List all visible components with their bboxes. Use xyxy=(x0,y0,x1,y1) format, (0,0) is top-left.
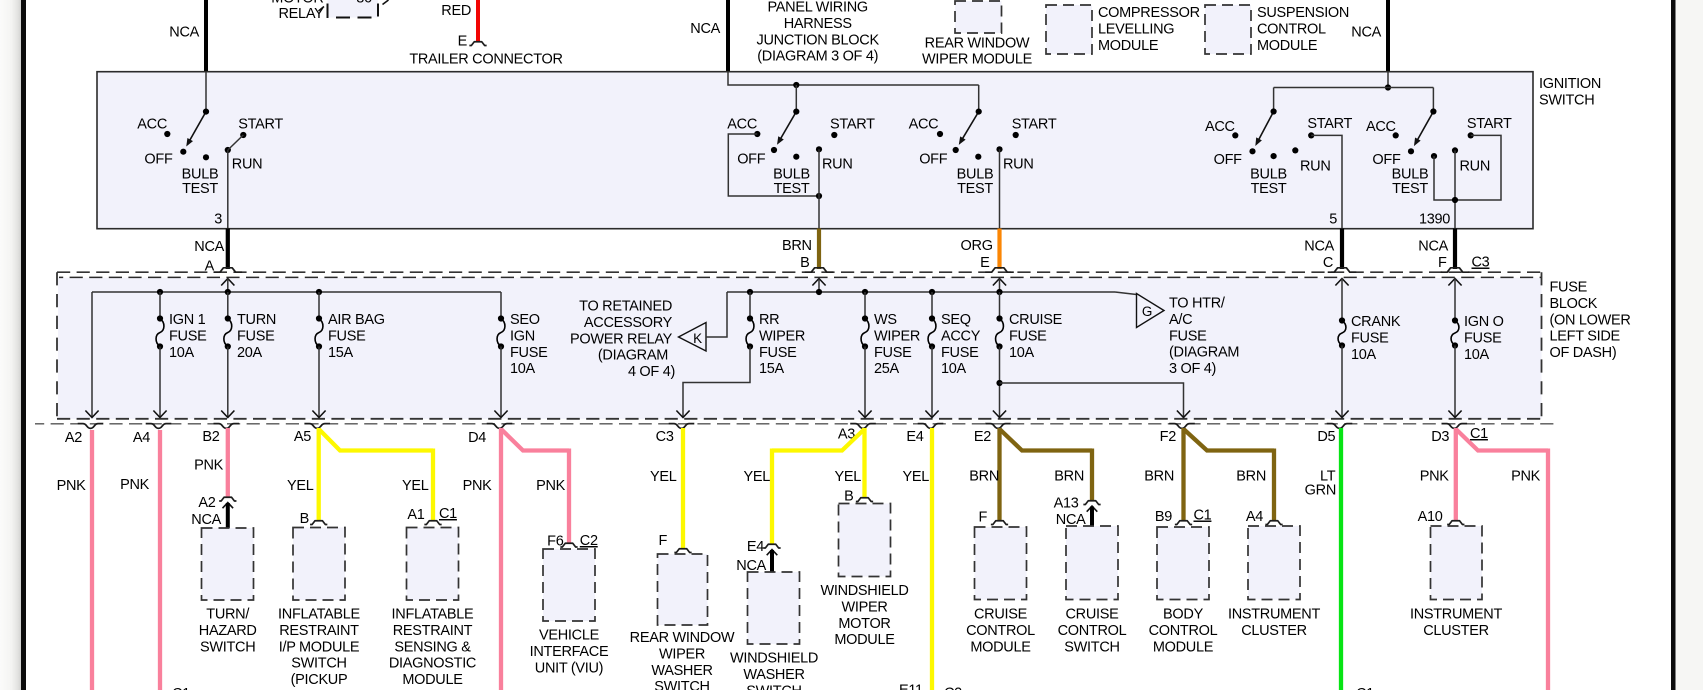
svg-text:FUSE: FUSE xyxy=(1550,280,1588,296)
svg-text:C1: C1 xyxy=(1194,508,1212,524)
svg-text:NCA: NCA xyxy=(690,21,720,37)
svg-text:ACC: ACC xyxy=(1366,119,1396,135)
fuse CRUISE FUSE 10A (feeds exits E2 and F2) xyxy=(993,292,1190,418)
label FUSE BLOCK (ON LOWER LEFT SIDE OF DASH) xyxy=(1550,280,1631,362)
contact OFF switch3 xyxy=(919,147,959,167)
component WINDSHIELD WASHER SWITCH (dashed box) xyxy=(730,572,818,690)
svg-text:A/C: A/C xyxy=(1169,312,1192,328)
connector B9 C1 of body control module xyxy=(1155,508,1212,526)
svg-text:CRUISE: CRUISE xyxy=(1009,312,1063,328)
svg-text:REAR WINDOW: REAR WINDOW xyxy=(630,630,735,646)
module SUSPENSION CONTROL MODULE (dashed box) xyxy=(1205,5,1349,54)
svg-text:START: START xyxy=(830,116,875,132)
svg-text:RUN: RUN xyxy=(822,156,853,172)
svg-text:RUN: RUN xyxy=(1460,159,1491,175)
svg-text:PNK: PNK xyxy=(1511,469,1541,485)
fuse CRANK FUSE 10A xyxy=(1335,314,1400,418)
svg-text:COMPRESSOR: COMPRESSOR xyxy=(1098,5,1200,21)
fuse block exit D4 xyxy=(468,424,512,446)
page left black border xyxy=(21,0,26,690)
svg-text:A5: A5 xyxy=(294,429,311,445)
svg-text:INFLATABLE: INFLATABLE xyxy=(392,607,475,623)
svg-text:RUN: RUN xyxy=(1003,156,1034,172)
svg-text:10A: 10A xyxy=(1464,347,1490,363)
svg-text:TEST: TEST xyxy=(1251,181,1287,197)
svg-text:WASHER: WASHER xyxy=(651,663,712,679)
wire PNK from A4 xyxy=(120,430,160,690)
svg-text:SWITCH: SWITCH xyxy=(746,683,801,690)
wire NCA to ignition switch pin (left feed) xyxy=(169,0,206,72)
svg-text:START: START xyxy=(238,116,283,132)
svg-text:C2: C2 xyxy=(580,533,598,549)
inline connector E4 NCA xyxy=(736,539,780,574)
svg-text:PANEL WIRING: PANEL WIRING xyxy=(768,0,868,16)
svg-text:3 OF 4): 3 OF 4) xyxy=(1169,361,1216,377)
svg-text:IGNITION: IGNITION xyxy=(1539,76,1601,92)
fuse block exit E2 xyxy=(974,424,1011,445)
relay K1 MOTOR RELAY (cut off at top) xyxy=(271,0,388,22)
svg-text:OFF: OFF xyxy=(144,151,173,167)
svg-text:BRN: BRN xyxy=(969,469,999,485)
svg-text:CRANK: CRANK xyxy=(1351,314,1401,330)
fuse block exit A4 xyxy=(133,424,171,446)
svg-text:(DIAGRAM: (DIAGRAM xyxy=(598,348,668,364)
svg-text:NCA: NCA xyxy=(191,512,221,528)
page left edge gradient xyxy=(0,0,21,690)
svg-text:RESTRAINT: RESTRAINT xyxy=(393,623,473,639)
svg-text:NCA: NCA xyxy=(1351,25,1381,41)
contact START switch4 with output pin 5 xyxy=(1307,116,1352,228)
svg-text:HARNESS: HARNESS xyxy=(784,16,852,32)
svg-text:INFLATABLE: INFLATABLE xyxy=(278,607,361,623)
contact OFF switch5 xyxy=(1372,148,1414,168)
component VEHICLE INTERFACE UNIT (VIU) (dashed box) xyxy=(530,549,609,676)
wire K to middle bus xyxy=(706,292,727,337)
svg-text:C1: C1 xyxy=(439,506,457,522)
connector F of cruise control module xyxy=(978,510,1008,526)
svg-text:10A: 10A xyxy=(1009,345,1035,361)
svg-text:20A: 20A xyxy=(237,345,263,361)
wire BRN B (ignition to fuse block) xyxy=(782,229,819,272)
component INSTRUMENT CLUSTER right (dashed box) xyxy=(1410,526,1502,639)
svg-text:UNIT (VIU): UNIT (VIU) xyxy=(535,660,603,676)
page right black border xyxy=(1671,0,1676,690)
wire NCA A (ignition to fuse block) xyxy=(194,229,228,275)
svg-text:5: 5 xyxy=(1329,212,1337,228)
svg-text:ACCY: ACCY xyxy=(941,328,981,344)
fuse AIR BAG FUSE 15A xyxy=(312,292,384,418)
contact OFF switch1 xyxy=(144,149,186,168)
svg-text:RUN: RUN xyxy=(1300,159,1331,175)
contact ACC switch3 xyxy=(909,116,944,137)
svg-text:GRN: GRN xyxy=(1305,483,1336,499)
svg-text:15A: 15A xyxy=(759,361,785,377)
svg-text:CLUSTER: CLUSTER xyxy=(1241,623,1307,639)
connector A10 of instrument cluster (right) xyxy=(1418,509,1465,525)
page right paper strip xyxy=(1676,0,1703,690)
fuse block entry A (bump and arrow) xyxy=(214,268,243,292)
svg-text:SWITCH: SWITCH xyxy=(654,679,709,690)
fuse block exit E4 xyxy=(906,424,943,445)
fuse block exit D5 xyxy=(1317,424,1352,445)
svg-text:CONTROL: CONTROL xyxy=(1149,623,1218,639)
svg-text:C1: C1 xyxy=(1356,686,1374,690)
svg-text:ORG: ORG xyxy=(961,238,993,254)
fuse block exit A2 xyxy=(65,424,103,446)
wire RED to trailer connector xyxy=(441,0,478,42)
svg-text:4 OF 4): 4 OF 4) xyxy=(628,364,675,380)
contact OFF switch2 xyxy=(737,147,777,167)
svg-text:B: B xyxy=(844,489,853,505)
wire NCA C (ignition to fuse block) xyxy=(1304,229,1342,272)
fuse SEO IGN FUSE 10A xyxy=(494,292,548,418)
svg-text:ACC: ACC xyxy=(137,116,167,132)
svg-text:BLOCK: BLOCK xyxy=(1550,296,1598,312)
svg-text:WASHER: WASHER xyxy=(743,667,804,683)
svg-text:MODULE: MODULE xyxy=(402,672,463,688)
component REAR WINDOW WIPER WASHER SWITCH (dashed box) xyxy=(630,554,735,690)
svg-text:FUSE: FUSE xyxy=(237,328,275,344)
svg-text:NCA: NCA xyxy=(194,239,224,255)
svg-text:F2: F2 xyxy=(1160,429,1177,445)
svg-text:BRN: BRN xyxy=(1054,469,1084,485)
wire NCA F (ignition to fuse block) with connector C3 xyxy=(1418,229,1489,272)
svg-text:SEO: SEO xyxy=(510,312,540,328)
svg-text:C2: C2 xyxy=(944,686,962,690)
svg-text:10A: 10A xyxy=(169,345,195,361)
svg-text:TEST: TEST xyxy=(182,181,218,197)
svg-text:A4: A4 xyxy=(1246,509,1263,525)
svg-text:MOTOR: MOTOR xyxy=(838,616,890,632)
component CRUISE CONTROL MODULE (dashed box) xyxy=(966,527,1035,655)
connector A4 of instrument cluster xyxy=(1246,509,1283,525)
fuse IGN 1 FUSE 10A xyxy=(153,292,207,418)
svg-text:PNK: PNK xyxy=(194,458,224,474)
wire ORG E (ignition to fuse block) xyxy=(961,229,1000,272)
svg-text:RUN: RUN xyxy=(232,156,263,172)
svg-text:(DIAGRAM 3 OF 4): (DIAGRAM 3 OF 4) xyxy=(757,49,878,65)
wire PNK from D3 (two branches) xyxy=(1420,428,1548,690)
fuse SEQ ACCY FUSE 10A xyxy=(925,292,980,418)
svg-text:C1: C1 xyxy=(1470,426,1488,442)
svg-text:TEST: TEST xyxy=(774,181,810,197)
wire BRN from E2 (two branches) xyxy=(969,428,1092,521)
wire YEL from C3 xyxy=(650,428,683,549)
fuse WS WIPER FUSE 25A xyxy=(858,292,920,418)
svg-text:D5: D5 xyxy=(1317,429,1335,445)
fuse block entry F (bump and arrow) xyxy=(1441,268,1470,319)
svg-text:AIR BAG: AIR BAG xyxy=(328,312,385,328)
svg-text:CONTROL: CONTROL xyxy=(1257,21,1326,37)
connector E TRAILER CONNECTOR xyxy=(409,34,562,68)
svg-text:SWITCH: SWITCH xyxy=(1539,92,1594,108)
svg-text:MODULE: MODULE xyxy=(1153,639,1214,655)
svg-text:FUSE: FUSE xyxy=(1169,328,1207,344)
svg-text:ACC: ACC xyxy=(909,116,939,132)
svg-text:E4: E4 xyxy=(747,539,764,555)
wire ACC link switch2 xyxy=(728,134,822,199)
svg-text:MODULE: MODULE xyxy=(834,632,895,648)
ignition switch section 2 feed bus xyxy=(728,72,979,112)
svg-text:IGN: IGN xyxy=(510,328,535,344)
svg-text:FUSE: FUSE xyxy=(1464,330,1502,346)
fuse TURN FUSE 20A xyxy=(221,292,276,418)
svg-text:PNK: PNK xyxy=(463,478,493,494)
svg-text:RELAY: RELAY xyxy=(279,6,325,22)
svg-text:3: 3 xyxy=(214,212,222,228)
fuse block exit C3 xyxy=(656,424,695,445)
svg-text:C3: C3 xyxy=(656,429,674,445)
svg-text:YEL: YEL xyxy=(902,469,929,485)
svg-text:YEL: YEL xyxy=(287,478,314,494)
svg-text:K: K xyxy=(693,331,702,346)
contact RUN switch1 xyxy=(225,147,263,173)
contact ACC switch5 xyxy=(1366,119,1399,138)
contact BULB TEST switch4 xyxy=(1250,153,1287,197)
svg-text:WIPER: WIPER xyxy=(841,599,887,615)
svg-text:E: E xyxy=(458,34,468,50)
component WINDSHIELD WIPER MOTOR MODULE (dashed box) xyxy=(820,504,908,649)
contact RUN switch2 and output wire xyxy=(816,146,853,228)
off-page arrow G and wire xyxy=(1115,292,1164,328)
fuse block exit A3 xyxy=(838,424,876,443)
connector B of I/P module switch xyxy=(300,511,328,527)
fuse block left bus xyxy=(92,289,501,295)
svg-text:TO HTR/: TO HTR/ xyxy=(1169,296,1226,312)
svg-text:IGN 1: IGN 1 xyxy=(169,312,206,328)
svg-text:B: B xyxy=(800,255,809,271)
svg-text:BODY: BODY xyxy=(1163,607,1204,623)
component INSTRUMENT CLUSTER (dashed box) xyxy=(1228,526,1320,639)
svg-text:SUSPENSION: SUSPENSION xyxy=(1257,5,1349,21)
svg-text:MODULE: MODULE xyxy=(1098,38,1159,54)
svg-text:FUSE: FUSE xyxy=(510,345,548,361)
contact START switch5 with link xyxy=(1455,116,1512,200)
svg-text:ACC: ACC xyxy=(727,116,757,132)
svg-text:YEL: YEL xyxy=(402,478,429,494)
svg-text:C: C xyxy=(1323,255,1333,271)
component BODY CONTROL MODULE (dashed box) xyxy=(1149,527,1218,655)
svg-text:RED: RED xyxy=(441,3,471,19)
ignition switch sections 4-5 feed bus xyxy=(1274,72,1434,112)
component INFLATABLE RESTRAINT I/P MODULE SWITCH (PICKUP (dashed box) xyxy=(278,528,361,689)
fuse block body (on lower left side of dash) xyxy=(58,278,1542,419)
inline connector A2 NCA xyxy=(191,495,236,528)
contact OFF switch4 xyxy=(1214,148,1256,168)
svg-text:A2: A2 xyxy=(198,495,215,511)
svg-text:PNK: PNK xyxy=(536,478,566,494)
wire YEL from E4 to bottom with connector E11 xyxy=(899,428,962,690)
svg-text:B2: B2 xyxy=(202,429,219,445)
svg-text:PNK: PNK xyxy=(120,477,150,493)
svg-text:FUSE: FUSE xyxy=(941,345,979,361)
svg-text:RR: RR xyxy=(759,312,779,328)
svg-text:D3: D3 xyxy=(1431,429,1449,445)
svg-text:MODULE: MODULE xyxy=(970,639,1031,655)
label IGNITION SWITCH xyxy=(1539,76,1601,108)
svg-text:TEST: TEST xyxy=(1392,181,1428,197)
svg-text:10A: 10A xyxy=(1351,347,1377,363)
svg-text:F: F xyxy=(978,510,987,526)
fuse block exit A5 xyxy=(294,424,330,445)
svg-text:OFF: OFF xyxy=(737,151,766,167)
svg-text:NCA: NCA xyxy=(1418,239,1448,255)
svg-text:INTERFACE: INTERFACE xyxy=(530,644,609,660)
svg-text:CRUISE: CRUISE xyxy=(974,607,1028,623)
wire NCA to ignition switch (center feed) xyxy=(690,0,728,72)
fuse block entry C (bump and arrow) xyxy=(1328,268,1357,319)
fuse block middle bus xyxy=(727,289,1115,295)
svg-text:WIPER MODULE: WIPER MODULE xyxy=(922,52,1033,68)
svg-text:YEL: YEL xyxy=(650,469,677,485)
wire LT GRN from D5 with connector (cut at bottom) xyxy=(1305,428,1374,690)
svg-text:PNK: PNK xyxy=(1420,469,1450,485)
svg-text:BRN: BRN xyxy=(782,238,812,254)
contact BULB TEST switch3 xyxy=(957,154,994,197)
wire to exit A2 (no fuse) xyxy=(85,292,98,418)
inline connector A13 NCA xyxy=(1054,496,1101,529)
svg-text:OFF: OFF xyxy=(1214,152,1243,168)
fuse block inner harness row (thin dashed) xyxy=(59,276,1541,278)
svg-text:WINDSHIELD: WINDSHIELD xyxy=(820,583,908,599)
svg-text:BRN: BRN xyxy=(1236,469,1266,485)
svg-text:SWITCH: SWITCH xyxy=(1064,639,1119,655)
connector label C1 (cut at bottom) xyxy=(172,686,190,690)
svg-text:(DIAGRAM: (DIAGRAM xyxy=(1169,345,1239,361)
contact ACC switch1 xyxy=(137,116,170,137)
svg-text:E: E xyxy=(980,255,990,271)
ignition switch S1 box xyxy=(97,72,1533,229)
svg-text:FUSE: FUSE xyxy=(328,328,366,344)
svg-text:ACC: ACC xyxy=(1205,119,1235,135)
svg-text:FUSE: FUSE xyxy=(759,345,797,361)
svg-text:YEL: YEL xyxy=(743,469,770,485)
svg-text:86: 86 xyxy=(356,0,372,6)
svg-text:POWER RELAY: POWER RELAY xyxy=(570,331,673,347)
svg-text:TO RETAINED: TO RETAINED xyxy=(579,299,672,315)
contact RUN switch3 and output wire xyxy=(996,146,1033,228)
wire PNK from D4 (two branches) xyxy=(463,428,569,690)
contact START switch1 xyxy=(238,116,283,138)
svg-text:START: START xyxy=(1307,116,1352,132)
contact RUN switch5 with junction and output pin 1390 xyxy=(1419,147,1490,228)
fuse block entry B (bump and arrow) xyxy=(805,268,834,292)
svg-text:1390: 1390 xyxy=(1419,212,1450,228)
svg-text:HAZARD: HAZARD xyxy=(199,623,257,639)
contact RUN switch4 xyxy=(1292,147,1330,174)
svg-text:WIPER: WIPER xyxy=(874,328,920,344)
connector B of windshield wiper motor module xyxy=(844,489,873,505)
svg-text:C1: C1 xyxy=(172,686,190,690)
svg-text:B: B xyxy=(300,511,309,527)
svg-text:WIPER: WIPER xyxy=(759,328,805,344)
svg-text:IGN O: IGN O xyxy=(1464,314,1504,330)
svg-text:D4: D4 xyxy=(468,430,486,446)
wire NCA to ignition switch (right feed) xyxy=(1351,0,1388,72)
svg-text:(ON LOWER: (ON LOWER xyxy=(1550,312,1631,328)
svg-text:FUSE: FUSE xyxy=(1009,328,1047,344)
contact START switch2 xyxy=(830,116,875,138)
svg-text:WIPER: WIPER xyxy=(659,646,705,662)
svg-text:SWITCH: SWITCH xyxy=(291,656,346,672)
ignition switch section 4 (pivot) xyxy=(1255,108,1276,146)
ignition switch section 5 (pivot) xyxy=(1414,108,1437,146)
component CRUISE CONTROL SWITCH (dashed box) xyxy=(1058,526,1127,655)
ignition switch section 3 (pivot) xyxy=(959,109,982,145)
svg-text:WS: WS xyxy=(874,312,897,328)
svg-text:E4: E4 xyxy=(906,429,923,445)
svg-text:B9: B9 xyxy=(1155,509,1172,525)
svg-text:START: START xyxy=(1467,116,1512,132)
ignition switch section 1 (pivot) xyxy=(186,72,209,146)
contact ACC switch2 xyxy=(727,116,760,137)
component TURN/HAZARD SWITCH (dashed box) xyxy=(199,528,257,655)
svg-text:CRUISE: CRUISE xyxy=(1066,607,1120,623)
svg-text:10A: 10A xyxy=(941,361,967,377)
connector A1 C1 of sensing module xyxy=(407,506,457,525)
connector F of rear window wiper washer switch xyxy=(658,533,691,553)
svg-text:CONTROL: CONTROL xyxy=(1058,623,1127,639)
svg-text:E2: E2 xyxy=(974,429,991,445)
svg-text:A1: A1 xyxy=(407,507,424,523)
svg-text:INSTRUMENT: INSTRUMENT xyxy=(1410,607,1502,623)
svg-text:F: F xyxy=(658,533,667,549)
svg-text:A2: A2 xyxy=(65,430,82,446)
svg-text:15A: 15A xyxy=(328,345,354,361)
svg-text:YEL: YEL xyxy=(834,469,861,485)
svg-text:FUSE: FUSE xyxy=(169,328,207,344)
label TO HTR/ A/C FUSE (DIAGRAM 3 OF 4) xyxy=(1169,296,1239,378)
svg-text:C3: C3 xyxy=(1472,255,1490,271)
fuse block exit D3 with connector C1 xyxy=(1431,424,1488,445)
contact START switch3 xyxy=(1012,116,1057,138)
connector F6 C2 of VIU xyxy=(547,533,598,550)
svg-text:E11: E11 xyxy=(899,683,923,690)
svg-text:TRAILER CONNECTOR: TRAILER CONNECTOR xyxy=(409,52,562,68)
contact BULB TEST switch5 with link xyxy=(1392,153,1455,200)
off-page arrow K xyxy=(679,323,707,352)
wire YEL from A3 (three branches) xyxy=(743,428,864,545)
svg-text:MODULE: MODULE xyxy=(1257,38,1318,54)
ignition switch section 2 (pivot) xyxy=(777,109,799,145)
wire START-RUN link switch1 and output pin 3 xyxy=(214,135,243,229)
wire PNK from A2 xyxy=(57,430,92,690)
wire PNK from B2 to inline connector A2 xyxy=(194,428,228,498)
contact ACC switch4 xyxy=(1205,119,1238,138)
svg-text:VEHICLE: VEHICLE xyxy=(539,628,600,644)
svg-text:CONTROL: CONTROL xyxy=(966,623,1035,639)
junction block label PANEL WIRING HARNESS JUNCTION BLOCK (DIAGRAM 3 OF 4) xyxy=(757,0,880,65)
svg-text:OF DASH): OF DASH) xyxy=(1550,345,1617,361)
module COMPRESSOR LEVELLING MODULE (dashed box) xyxy=(1046,5,1200,54)
svg-text:I/P MODULE: I/P MODULE xyxy=(279,639,360,655)
svg-text:REAR WINDOW: REAR WINDOW xyxy=(925,36,1030,52)
svg-text:NCA: NCA xyxy=(1304,239,1334,255)
svg-text:OFF: OFF xyxy=(919,151,948,167)
fuse block entry E (bump and arrow) xyxy=(985,268,1014,292)
svg-text:LEVELLING: LEVELLING xyxy=(1098,21,1174,37)
svg-text:A4: A4 xyxy=(133,430,150,446)
wire BRN from F2 (two branches) xyxy=(1144,428,1274,521)
contact BULB TEST switch2 xyxy=(773,154,810,197)
svg-text:SEQ: SEQ xyxy=(941,312,971,328)
svg-text:F: F xyxy=(1438,255,1447,271)
label TO RETAINED ACCESSORY POWER RELAY (DIAGRAM 4 OF 4) xyxy=(570,299,675,381)
svg-text:WINDSHIELD: WINDSHIELD xyxy=(730,651,818,667)
module REAR WINDOW WIPER MODULE (dashed box, cut at top) xyxy=(922,1,1033,68)
svg-text:TEST: TEST xyxy=(957,181,993,197)
fuse RR WIPER FUSE 15A (feeds exit C3) xyxy=(676,292,805,418)
